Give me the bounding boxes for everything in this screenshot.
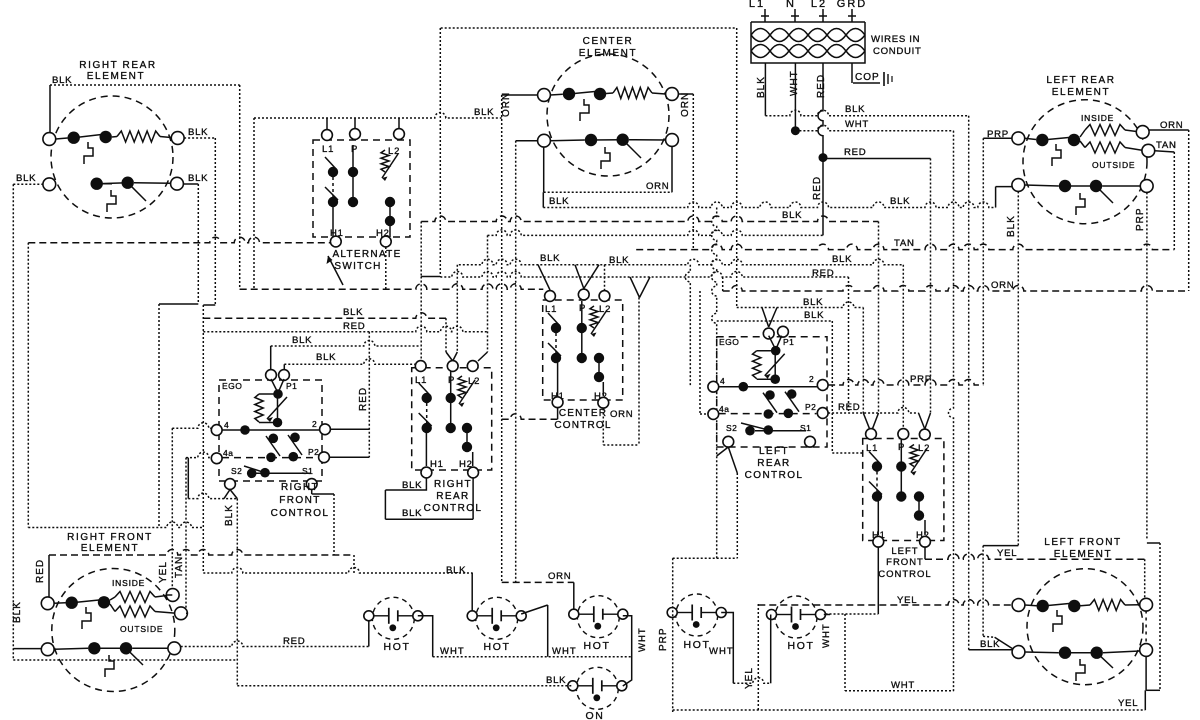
svg-text:WHT: WHT <box>845 119 869 130</box>
wire YEL corner into inside terminal <box>166 594 172 596</box>
wire HOT bus y=573 from x=203 <box>203 568 472 574</box>
wire WHT row from N to x=953 <box>795 125 953 131</box>
svg-text:4a: 4a <box>719 404 729 414</box>
svg-text:LEFT: LEFT <box>891 546 918 557</box>
switch center control guts <box>551 323 561 333</box>
svg-text:RIGHT REAR: RIGHT REAR <box>79 60 157 71</box>
wire RED branch row to x=930 <box>823 158 931 160</box>
svg-text:PRP: PRP <box>658 627 669 651</box>
wire vertical x=832 down to y=453 <box>831 321 833 453</box>
svg-text:L1: L1 <box>749 0 765 10</box>
wire TR lead to x=693 <box>678 93 693 95</box>
svg-text:BLK: BLK <box>546 675 566 686</box>
wire BLK long vertical x=969 down to left front element <box>968 116 970 650</box>
terminal center control L2 <box>599 291 610 302</box>
wire BLK rotated drop from bottom-left terminal <box>1017 191 1019 545</box>
wire BLK bus y=318 from x=203 <box>203 313 446 319</box>
terminal right front control P2 <box>319 452 330 463</box>
svg-text:LEFT FRONT: LEFT FRONT <box>1044 537 1121 548</box>
wire right front control row 4a internal <box>222 457 319 459</box>
terminal left rear element TAN <box>1142 144 1155 157</box>
wire right rear control H1 internal <box>425 432 427 466</box>
wire H2 drop to row y=519 <box>472 478 474 519</box>
svg-text:WHT: WHT <box>789 70 800 96</box>
wire vertical x=371 up to HOT1 left terminal <box>368 621 370 647</box>
wire BLK row F y=277 from center element drop <box>439 116 441 277</box>
wire row F V-dip to vertical x=639 <box>630 277 640 298</box>
element left front element outline <box>1027 569 1143 685</box>
terminal right front control S1 <box>306 479 317 490</box>
wire vertical x=693 down to TAN row <box>692 94 694 250</box>
svg-text:BLK: BLK <box>980 639 1000 650</box>
wire left rear control row 4 internal <box>719 386 818 388</box>
svg-text:L1: L1 <box>866 443 878 454</box>
svg-text:RED: RED <box>844 147 866 158</box>
terminal right front element outside <box>175 607 188 620</box>
svg-text:BLK: BLK <box>803 297 823 308</box>
svg-text:TAN: TAN <box>894 238 915 249</box>
terminal right front control P1 <box>279 370 290 381</box>
svg-text:ORN: ORN <box>646 181 669 192</box>
wire TAN corner into outside terminal <box>186 612 187 614</box>
svg-text:RED: RED <box>35 559 46 583</box>
svg-text:HOT: HOT <box>484 641 511 653</box>
svg-text:P2: P2 <box>308 447 319 457</box>
switch hook right rear element top <box>84 142 93 164</box>
svg-text:HOT: HOT <box>788 640 815 652</box>
svg-text:CONTROL: CONTROL <box>745 470 804 481</box>
wire vertical x=215 from top-right terminal <box>214 138 216 305</box>
switch center control box <box>543 300 623 400</box>
svg-text:YEL: YEL <box>997 548 1017 559</box>
terminal left front control L1 <box>866 429 877 440</box>
terminal center element bottom-right <box>666 134 679 147</box>
svg-text:RED: RED <box>838 402 860 413</box>
svg-text:BLK: BLK <box>890 196 910 207</box>
wire L2 lead into conduit <box>822 9 824 22</box>
terminal center control L1 <box>545 291 556 302</box>
wire WHT drop HOT3 right to ON right <box>623 616 632 686</box>
svg-text:BLK: BLK <box>402 508 422 519</box>
wire left rear control row 4a internal <box>719 413 817 415</box>
svg-text:L1: L1 <box>545 304 557 315</box>
terminal center element bottom-left <box>538 134 551 147</box>
wire vertical x=639 down to center control H2 row <box>638 298 640 446</box>
wire left rear control 4a feed <box>700 413 708 415</box>
wire alternate switch H1 internal <box>332 202 334 237</box>
wire row E dip to center control P terminal <box>575 265 584 289</box>
wire PRP drop from bottom-right terminal <box>1146 192 1148 540</box>
lamp HOT1 <box>372 597 414 639</box>
svg-text:PRP: PRP <box>910 374 932 385</box>
terminal right front element bottom-right <box>168 642 181 655</box>
wire RED bus row C y=235 from conduit L2 <box>488 230 824 236</box>
svg-text:N: N <box>786 0 796 10</box>
switch left front control box <box>863 439 944 541</box>
terminal left rear control 4a <box>708 409 719 420</box>
terminal right front element top-left <box>41 597 54 610</box>
wire BLK vertical x=903 row E to P <box>902 265 904 429</box>
terminal left rear element bottom-right <box>1140 180 1153 193</box>
node junction on RED at y=158 <box>819 153 828 162</box>
terminal center element top-left <box>538 89 551 102</box>
svg-text:L2: L2 <box>811 0 827 10</box>
wire BLK row y=307 to left front control feeds <box>737 302 864 308</box>
wire BLK feed row y=364 to EGO terminal <box>284 359 415 364</box>
wire PRP jog to x=1160 <box>1147 542 1160 544</box>
contact dots center element top row <box>563 88 575 100</box>
wire WHT from conduit N down <box>794 63 796 131</box>
lamp HOT5 <box>775 596 817 638</box>
wire BLK feed row y=346 to P1 <box>271 341 420 347</box>
switch right rear control box <box>412 368 492 470</box>
wire left rear element internal stubs <box>1025 138 1036 139</box>
terminal left rear control S2 <box>723 436 734 447</box>
svg-text:4a: 4a <box>223 448 233 458</box>
wire left rear control 4 feed <box>685 265 690 387</box>
svg-text:BLK: BLK <box>446 565 466 576</box>
wire center control L2 feed from row E <box>604 265 606 290</box>
svg-text:BLK: BLK <box>224 504 235 526</box>
resistor right front element outside coil <box>110 604 115 612</box>
wire BL jog of center element to x=516 <box>516 140 538 142</box>
resistor center element coil <box>606 92 613 95</box>
svg-text:SWITCH: SWITCH <box>334 261 381 272</box>
terminal right rear control H1 <box>421 467 432 478</box>
wire center control H2 internal <box>602 382 604 396</box>
switch blade left front element bottom <box>1097 653 1113 668</box>
contact dots right rear element bottom row <box>91 178 103 190</box>
wire vertical x=722 stub for ORN bus end <box>722 277 724 291</box>
wire H1 WHT route down <box>877 547 879 614</box>
terminal right rear control P <box>447 361 458 372</box>
wire stubs from feeder row to alternate switch terminals <box>326 118 328 130</box>
switch hook right rear element bottom <box>107 190 116 212</box>
switch blade right front element bottom <box>126 648 143 665</box>
terminal right front control 4a <box>211 453 222 464</box>
terminal left front control H1 <box>873 536 884 547</box>
terminal right rear element top-left <box>43 133 56 146</box>
wire row 4 feed from x=172 <box>172 423 211 429</box>
node junction on WHT at y=131 <box>791 126 800 135</box>
svg-text:BLK: BLK <box>1006 215 1017 237</box>
wire TAN bus row D y=250 <box>636 244 1174 250</box>
wire BLK from bottom-left terminal to far left rail <box>13 183 43 185</box>
contact dots S row <box>247 469 257 479</box>
wire feeder row y=118 over alternate switch <box>254 113 502 119</box>
wire bottom YEL row y=710 <box>673 709 1146 711</box>
wire YEL rise x=1145 to corner <box>1144 690 1146 710</box>
switch alternate switch box <box>313 140 410 237</box>
wire ORN vertical x=1188 down to ORN bus <box>1188 130 1190 291</box>
svg-text:P2: P2 <box>805 402 816 412</box>
svg-text:CENTER: CENTER <box>583 36 634 47</box>
svg-text:BLK: BLK <box>188 127 208 138</box>
wire row A corner up to left rear element lower-left <box>995 187 997 208</box>
switch blade center element bottom <box>623 140 641 158</box>
terminal left front control L2 <box>919 429 930 440</box>
svg-text:YEL: YEL <box>897 595 917 606</box>
svg-text:HOT: HOT <box>584 640 611 652</box>
wire WHT bottom row to x=955 <box>845 690 954 692</box>
contact dots right rear element top row <box>68 132 80 144</box>
svg-text:CONTROL: CONTROL <box>878 569 931 580</box>
switch blades right front control <box>266 436 280 456</box>
svg-text:YEL: YEL <box>1118 698 1138 709</box>
wire row y=558 bottom-center <box>673 557 738 559</box>
svg-text:WHT: WHT <box>821 623 832 648</box>
svg-text:WHT: WHT <box>552 646 577 657</box>
wire vertical x=254 from row 124 to row 289 <box>253 118 255 289</box>
wire right rear element TL-TR internal stubs <box>56 138 68 139</box>
svg-text:FRONT: FRONT <box>279 495 320 506</box>
svg-text:RIGHT: RIGHT <box>434 479 472 490</box>
wire BLK top feed of right rear element <box>49 85 51 139</box>
terminal left rear control 4 <box>708 381 719 392</box>
svg-text:S1: S1 <box>800 423 811 433</box>
svg-text:WHT: WHT <box>709 646 734 657</box>
terminal left rear element top-left <box>1012 132 1025 145</box>
svg-text:RED: RED <box>358 387 369 411</box>
wire left front element internal stubs <box>1025 604 1037 607</box>
wire right front control row 4 internal <box>222 429 320 431</box>
terminal right rear element top-right <box>171 132 184 145</box>
svg-text:CONTROL: CONTROL <box>271 508 330 519</box>
contact dots left rear element bottom row <box>1059 180 1071 192</box>
svg-text:CONDUIT: CONDUIT <box>873 46 922 57</box>
terminal right front control top-left <box>266 370 277 381</box>
svg-text:LEFT: LEFT <box>759 446 789 457</box>
svg-text:P: P <box>448 375 455 386</box>
svg-text:L1: L1 <box>322 144 334 155</box>
terminal left rear control S1 <box>805 436 816 447</box>
lamp HOT2 <box>476 597 518 639</box>
wire row y=445 H2 to x=639 <box>603 444 639 446</box>
svg-text:TAN: TAN <box>174 556 185 578</box>
svg-text:BLK: BLK <box>804 310 824 321</box>
wire WHT link HOT4-HOT5 <box>721 613 733 684</box>
wire row y=453 to left front control box <box>832 452 862 454</box>
svg-text:BLK: BLK <box>609 255 629 266</box>
terminal left front control H2 <box>920 536 931 547</box>
wire vertical x=159 down to y=527 <box>158 304 160 528</box>
terminal right front control 4 <box>211 425 222 436</box>
contact dots center element bottom row <box>585 134 597 146</box>
svg-text:ORN: ORN <box>680 92 691 117</box>
switch blade right rear element bottom <box>128 183 146 201</box>
wire jog to x=203 <box>203 304 215 306</box>
wire center element BLK drop x=737 to row 307 <box>736 28 738 308</box>
svg-text:RED: RED <box>812 268 834 279</box>
wire WHT link HOT2-HOT3 upper <box>521 605 548 614</box>
wire BLK vertical x=863 to L1 <box>862 308 864 414</box>
wire TAN vertical x=1174 down to TAN bus <box>1173 152 1175 250</box>
svg-text:4: 4 <box>720 376 725 386</box>
wire RED bus y=331 from x=203 <box>203 326 487 332</box>
svg-text:RED: RED <box>283 636 305 647</box>
terminal center control H2 <box>598 397 609 408</box>
terminal left rear control P2 <box>817 408 828 419</box>
wire element top bus y=555 <box>49 550 354 556</box>
svg-text:HOT: HOT <box>384 641 411 653</box>
switch right rear control guts <box>422 393 432 403</box>
wire BLK from conduit L1 down <box>764 63 766 116</box>
element right rear element outline <box>51 96 173 218</box>
wire GRD lead into conduit <box>851 9 853 22</box>
switch hook right front element top <box>82 607 91 629</box>
wire bottom-left terminal to left rail <box>13 648 41 650</box>
svg-text:RED: RED <box>816 74 827 98</box>
svg-text:COP: COP <box>855 72 880 83</box>
wire Z jog to x=983 and down to left front element <box>983 545 1018 547</box>
wire right rear control H2 internal <box>472 452 474 466</box>
svg-text:ORN: ORN <box>501 92 512 117</box>
svg-text:EGO: EGO <box>719 337 739 347</box>
resistor right rear element coil <box>112 136 117 139</box>
terminal left rear control P1 pair <box>763 328 774 339</box>
wire BLK corner into left front element lower terminal <box>969 649 1012 651</box>
svg-text:REAR: REAR <box>757 458 790 469</box>
wire ON lamp left feed BLK bus y=685 <box>237 685 572 687</box>
svg-text:ON: ON <box>586 710 605 720</box>
wire BR loop under center element <box>543 147 545 193</box>
terminal right front control S2 <box>225 479 236 490</box>
wire row y=242 from left rail to alternate switch H1 <box>28 237 330 242</box>
wire ORN bus y=291 <box>723 286 1189 292</box>
svg-text:ORN: ORN <box>548 571 571 582</box>
wire ORN row y=582 to HOT3 <box>502 581 574 583</box>
resistor left rear element outside coil <box>1080 141 1085 148</box>
svg-text:PRP: PRP <box>1135 207 1146 231</box>
svg-text:BLK: BLK <box>832 254 852 265</box>
wire RED diagonal into L2 of left front control <box>925 413 931 429</box>
wire RED from conduit L2 down <box>818 63 823 235</box>
contact dots right front element top row <box>66 597 78 609</box>
switch hook left rear element top <box>1052 144 1061 166</box>
svg-text:RIGHT: RIGHT <box>281 482 319 493</box>
wire RED vertical x=369 between rows <box>368 332 370 458</box>
wire H1 ORN route to HOT3 <box>557 408 559 419</box>
terminal left rear control 2 <box>817 380 828 391</box>
switch hook right front element bottom <box>105 655 114 677</box>
terminal right rear control H2 <box>468 467 479 478</box>
svg-text:S2: S2 <box>726 423 737 433</box>
switch right front control guts <box>271 379 278 393</box>
svg-text:ELEMENT: ELEMENT <box>87 71 145 82</box>
wire jog row y=304 <box>159 303 198 305</box>
wire S2 drop with V <box>224 490 230 499</box>
resistor left front element coil <box>1081 604 1091 607</box>
svg-text:WIRES IN: WIRES IN <box>871 34 920 45</box>
switch hook left front element bottom <box>1076 659 1085 681</box>
svg-text:BLK: BLK <box>292 335 312 346</box>
svg-text:WHT: WHT <box>440 646 465 657</box>
wire row y=519 under right rear control <box>385 518 473 520</box>
terminal left front element top-right <box>1140 598 1153 611</box>
resistor left rear element inside coil <box>1080 130 1085 137</box>
wire BLK bus row E y=265 <box>459 259 904 265</box>
wire outer box top row y=321 <box>717 320 833 322</box>
svg-text:BLK: BLK <box>12 601 23 623</box>
wire RED long vertical x=930 down to left front control L2 <box>930 159 932 414</box>
svg-text:BLK: BLK <box>782 210 802 221</box>
terminal right front control 2 <box>320 424 331 435</box>
svg-text:P: P <box>351 144 358 155</box>
wire right front element internal stubs <box>54 602 65 605</box>
contact dots left rear element top row <box>1036 134 1048 146</box>
wire V into left front control L2 <box>919 413 925 429</box>
terminal center control H1 <box>552 397 563 408</box>
element center element outline <box>547 54 669 176</box>
wire PRP bus y=385 from terminal 2 <box>828 380 983 386</box>
svg-text:CONTROL: CONTROL <box>554 420 611 431</box>
svg-text:OUTSIDE: OUTSIDE <box>120 624 163 634</box>
switch alternate switch guts <box>328 167 338 177</box>
terminal right rear element bottom-right <box>171 177 184 190</box>
svg-text:GRD: GRD <box>837 0 867 10</box>
wire L1 lead into conduit <box>764 9 766 22</box>
wire x=737 branch down to row 558 <box>736 473 738 558</box>
wire vertical x=543 continues to BLK bus row A <box>542 192 544 207</box>
wire S2 V branches down <box>717 447 729 456</box>
wire H2 stub down to row 445 <box>602 409 604 446</box>
svg-text:EGO: EGO <box>222 381 242 391</box>
svg-text:BLK: BLK <box>343 307 363 318</box>
svg-text:BLK: BLK <box>540 253 560 264</box>
terminal left rear element bottom-left <box>1012 179 1025 192</box>
wire vertical x=354 to HOT bus <box>353 555 355 573</box>
wire right rear element top-right lead <box>184 137 215 139</box>
wire HOT5 right WHT stub <box>824 614 830 616</box>
wire WHT long vertical x=953 down to bottom area <box>949 131 954 692</box>
terminal right rear control L2 <box>467 361 478 372</box>
terminal alternate switch L1 <box>322 130 333 141</box>
wire center control L1 feed V from row E <box>538 265 550 290</box>
svg-text:BLK: BLK <box>756 76 767 98</box>
svg-text:CONTROL: CONTROL <box>424 503 483 514</box>
svg-text:ELEMENT: ELEMENT <box>579 48 637 59</box>
svg-text:L1: L1 <box>415 375 427 386</box>
wire BLK vertical x=878 row B to L1 <box>878 222 880 414</box>
wire far-left BLK rail down the page <box>12 184 14 660</box>
wire WHT link HOT1-HOT2 <box>418 616 433 657</box>
wire TAN lead right <box>1155 151 1175 152</box>
wire ORN lead right <box>1149 129 1189 131</box>
terminal right front element inside <box>166 589 179 602</box>
wire bottom-right terminal to corner <box>1145 656 1147 691</box>
contact dots left rear control rows <box>765 390 775 400</box>
terminal right rear element bottom-left <box>43 178 56 191</box>
svg-text:2: 2 <box>312 419 317 429</box>
svg-text:ALTERNATE: ALTERNATE <box>332 249 401 260</box>
wire PRP top-left lead to x=983 <box>983 137 1012 139</box>
svg-text:WHT: WHT <box>891 680 915 691</box>
contact dots right front control rows <box>269 434 279 444</box>
switch left front control guts <box>872 461 882 471</box>
svg-text:BLK: BLK <box>16 173 36 184</box>
svg-text:P: P <box>579 303 586 314</box>
wire alternate switch H2 internal <box>389 221 391 237</box>
wire vertical x=516 from BL down to ORN row <box>515 141 517 583</box>
svg-text:S2: S2 <box>231 466 242 476</box>
switch right front control box <box>219 380 322 481</box>
terminal alternate switch L2 <box>394 129 405 140</box>
terminal left front element top-left <box>1012 599 1025 612</box>
svg-text:WHT: WHT <box>637 627 648 652</box>
terminal left front control P <box>898 429 909 440</box>
contact dots right front element bottom row <box>88 642 100 654</box>
wire V feed into right rear control P <box>445 318 447 352</box>
